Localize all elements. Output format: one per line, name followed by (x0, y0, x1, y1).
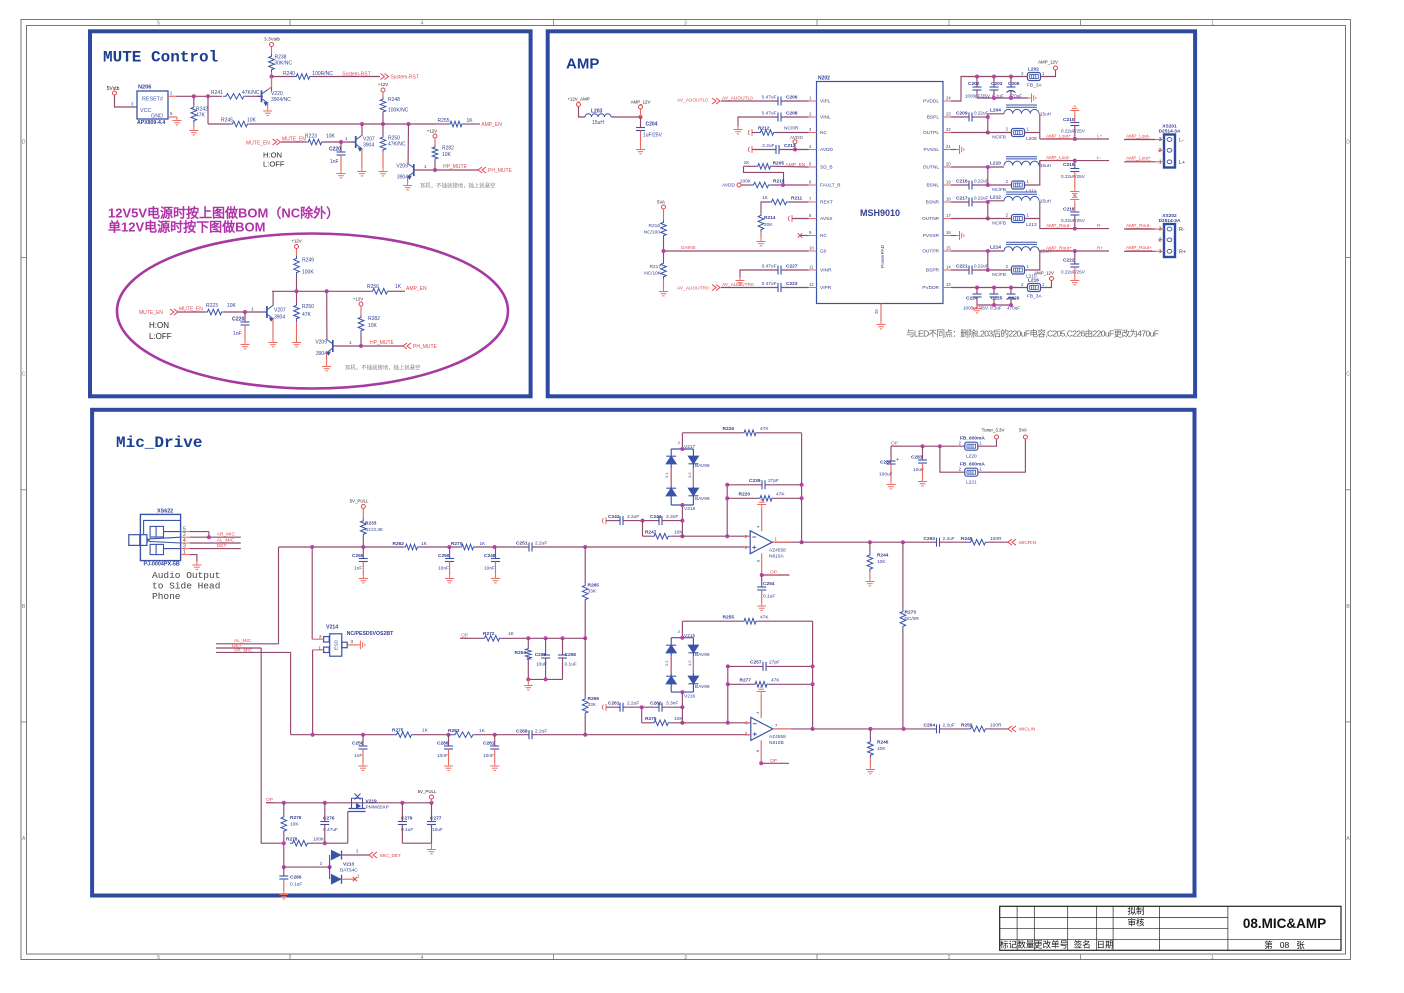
title block outer frame (1000, 906, 1341, 950)
off-page connector MICLIN (1008, 726, 1016, 732)
svg-text:0.22uF/25V: 0.22uF/25V (1061, 270, 1086, 275)
svg-text:V219: V219 (366, 798, 378, 804)
svg-text:10K: 10K (368, 323, 378, 329)
svg-text:Tuner_3.3V: Tuner_3.3V (982, 428, 1005, 433)
svg-text:NC/FB: NC/FB (992, 135, 1006, 140)
svg-text:D2514-3A: D2514-3A (1159, 129, 1181, 135)
capacitor C221 0.22uF (951, 269, 969, 271)
svg-text:AVDD: AVDD (820, 147, 834, 153)
wire opamp output lower (773, 728, 937, 730)
capacitor C203 0.1uF (993, 77, 995, 88)
svg-text:System-RST: System-RST (342, 71, 370, 77)
svg-text:3: 3 (351, 639, 354, 644)
svg-text:V216: V216 (684, 694, 696, 700)
svg-text:拟制: 拟制 (1127, 906, 1144, 916)
svg-text:47K: 47K (771, 678, 780, 684)
wire V209 base to HP_MUTE ellipse (333, 345, 403, 347)
wire to C206 (721, 100, 778, 102)
svg-text:0.22uF/25V: 0.22uF/25V (1061, 129, 1086, 134)
ground below C248 (495, 562, 497, 576)
wire L216 to AMP_12V (1041, 280, 1052, 288)
IC N202 MSH9010 body (817, 82, 944, 304)
svg-text:AV_AUOUTR0: AV_AUOUTR0 (677, 286, 709, 292)
inductor L210 15uH (951, 166, 1004, 168)
svg-text:C226: C226 (1008, 296, 1020, 302)
wire V219 gate down (347, 812, 349, 844)
svg-text:2.2uF: 2.2uF (943, 723, 955, 729)
svg-text:C280: C280 (290, 875, 302, 881)
resistor R223 10K (306, 139, 324, 145)
svg-text:VIPR: VIPR (820, 285, 832, 291)
svg-text:3.3Vstb: 3.3Vstb (264, 37, 280, 42)
resistor R282 10K (432, 145, 438, 161)
svg-text:AMP_EN: AMP_EN (406, 286, 427, 292)
power +12V right ellipse (359, 302, 363, 306)
Mic_Drive box border (92, 410, 1194, 896)
svg-text:C255: C255 (352, 553, 364, 559)
svg-text:APX809-4.4: APX809-4.4 (137, 120, 165, 126)
stub XS201 pin2 (1158, 149, 1164, 151)
svg-text:L221: L221 (966, 480, 977, 486)
svg-text:0.22uF: 0.22uF (974, 111, 988, 116)
wire L220 to Tuner_3.3V (978, 439, 997, 446)
svg-text:DET: DET (217, 543, 227, 549)
svg-text:PH_MUTE: PH_MUTE (488, 168, 513, 174)
capacitor C284 100uF (887, 461, 896, 464)
svg-text:10K: 10K (877, 559, 886, 565)
svg-text:3.3nF: 3.3nF (666, 514, 678, 520)
wire bottom caps rail to ground (977, 304, 1011, 306)
no-connect C242 left (602, 517, 606, 524)
svg-text:AMP_Lout+: AMP_Lout+ (1126, 156, 1151, 162)
svg-text:PH_MUTE: PH_MUTE (413, 344, 438, 350)
wire 5VA to R216 (663, 209, 665, 220)
svg-text:R255: R255 (723, 614, 735, 620)
svg-text:3: 3 (684, 21, 687, 27)
svg-text:XS201: XS201 (1162, 124, 1177, 130)
wire V216 to input node lower (681, 692, 683, 723)
svg-text:V207: V207 (274, 307, 286, 313)
IC N206 APX809-4.4 (137, 91, 168, 119)
svg-text:BAV99: BAV99 (695, 652, 710, 658)
svg-text:1: 1 (251, 307, 254, 313)
capacitor C216 0.22uF (951, 184, 969, 186)
svg-text:1K: 1K (421, 541, 428, 547)
svg-text:HP_MUTE: HP_MUTE (370, 340, 395, 346)
svg-text:PVDDL: PVDDL (923, 99, 939, 105)
resistor R226 47K feedback (682, 432, 742, 434)
capacitor C264 2.2uF (937, 724, 940, 733)
svg-text:27pF: 27pF (769, 660, 780, 666)
svg-text:R246: R246 (877, 740, 889, 746)
svg-text:NC: NC (820, 233, 827, 239)
wire C261 to C262 (623, 706, 659, 708)
svg-text:NC/0R: NC/0R (784, 126, 799, 132)
svg-text:R283: R283 (448, 728, 460, 734)
svg-text:15uH: 15uH (1040, 112, 1051, 117)
wire R276 down to MIC_DET node (283, 843, 285, 867)
feedback right vertical upper (801, 433, 803, 542)
svg-text:PVSSR: PVSSR (923, 233, 940, 239)
svg-text:L220: L220 (966, 454, 977, 460)
svg-text:NC/FB: NC/FB (992, 221, 1006, 226)
op-amp N810B AZ4558 (751, 717, 773, 740)
ground left of C227 (740, 270, 744, 277)
svg-text:AMP: AMP (566, 56, 599, 73)
svg-text:R247: R247 (645, 529, 657, 535)
svg-text:R253: R253 (515, 650, 527, 656)
svg-text:C242: C242 (608, 514, 620, 520)
svg-text:OP: OP (461, 633, 468, 639)
ferrite bead L220 FB_600mA (965, 442, 978, 450)
resistor R277 47K (728, 683, 753, 685)
wire L221 to 5VA (978, 439, 1026, 472)
svg-text:D: D (22, 140, 26, 146)
power +12V_AMP (577, 103, 581, 107)
svg-text:R259: R259 (961, 723, 973, 729)
wire pin5 stub (190, 531, 209, 533)
wire AR_MIC bus (216, 651, 291, 653)
capacitor C242 2.2uF (606, 520, 620, 522)
off-page chevron AV_AUOUTL0 (712, 98, 720, 104)
svg-text:R216: R216 (649, 223, 661, 229)
wire 3.3Vstb to R238 (271, 47, 273, 55)
svg-text:AL_MIC: AL_MIC (217, 537, 235, 543)
svg-text:5V_PULL: 5V_PULL (350, 499, 369, 504)
ground V214 pin3 (347, 644, 357, 646)
svg-text:R249: R249 (961, 536, 973, 542)
svg-text:1: 1 (345, 136, 348, 141)
svg-text:PowerPAD: PowerPAD (880, 244, 886, 268)
svg-text:R211: R211 (791, 196, 803, 202)
svg-text:ESD: ESD (334, 640, 340, 650)
svg-text:AVSS: AVSS (820, 216, 832, 222)
svg-text:10K: 10K (290, 822, 299, 828)
svg-text:0.22uF/25V: 0.22uF/25V (1061, 218, 1086, 223)
capacitor C227 0.47uF (744, 269, 778, 271)
svg-text:R217: R217 (650, 264, 662, 270)
svg-text:2.2uF: 2.2uF (943, 536, 955, 542)
svg-text:VINR: VINR (820, 268, 832, 274)
svg-text:R272: R272 (483, 631, 495, 637)
ground below C254 (761, 590, 763, 603)
capacitor C223 0.47uF (721, 287, 778, 289)
resistor R278 100K (290, 840, 310, 846)
wire V214 pin2 to upper channel (312, 638, 323, 640)
svg-text:0.47uF: 0.47uF (762, 95, 777, 101)
capacitor C210 0.22uF/25V (1074, 126, 1076, 140)
vertical node Lout+ (1039, 114, 1041, 139)
resistor R238 30K/NC (269, 54, 275, 72)
svg-text:C227: C227 (786, 264, 798, 270)
svg-text:NC/PESD5VOS2BT: NC/PESD5VOS2BT (347, 631, 395, 637)
svg-text:10K: 10K (227, 303, 237, 309)
wire C243 to V218 node (662, 520, 682, 522)
svg-text:15uH: 15uH (592, 120, 604, 126)
svg-text:C264: C264 (924, 723, 936, 729)
svg-text:47K/NC: 47K/NC (242, 90, 260, 96)
svg-text:2.2uF: 2.2uF (627, 514, 639, 520)
svg-text:1nF: 1nF (354, 753, 362, 759)
svg-text:20K: 20K (764, 222, 773, 228)
svg-text:11: 11 (809, 265, 814, 270)
svg-text:L214: L214 (990, 245, 1001, 251)
svg-text:to Side Head: to Side Head (152, 581, 220, 592)
capacitor C283 10uF (922, 446, 924, 460)
resistor R220 47K (727, 497, 758, 499)
zone letters right (1346, 140, 1350, 842)
wire R275b to opamp minus lower (671, 722, 751, 724)
svg-text:2: 2 (948, 21, 951, 27)
svg-text:3.3nF: 3.3nF (666, 701, 678, 707)
ground below C277 (431, 843, 433, 846)
ground below R244 (869, 572, 871, 579)
svg-text:3904: 3904 (316, 351, 327, 357)
svg-text:R278: R278 (286, 836, 298, 842)
svg-text:C277: C277 (430, 816, 442, 822)
svg-text:+12V: +12V (378, 82, 388, 87)
capacitor C220 1nF (340, 142, 342, 152)
svg-text:0.1uF: 0.1uF (990, 306, 1002, 311)
wire AL_MIC from pin4 (190, 542, 241, 544)
capacitor C202 1000pF/35V (976, 77, 978, 88)
svg-text:R223: R223 (206, 303, 218, 309)
svg-text:耳机，不插就接地，插上就悬空: 耳机，不插就接地，插上就悬空 (345, 364, 420, 372)
op-amp pin 8 OP upper (761, 553, 763, 575)
ground below C281 (494, 749, 496, 763)
ground below C215 (1074, 172, 1076, 189)
svg-text:C210: C210 (1063, 117, 1075, 123)
off-page connector MICRIN (1008, 539, 1016, 545)
wire R233 to line (362, 537, 364, 548)
no-connect left of C213 (748, 146, 752, 153)
svg-text:C243: C243 (650, 514, 662, 520)
svg-text:标记: 标记 (1000, 940, 1018, 950)
svg-text:第 08 张: 第 08 张 (1264, 940, 1305, 950)
svg-text:FAULT_B: FAULT_B (820, 183, 840, 189)
wire C251 to opamp plus (532, 546, 750, 548)
svg-text:SD_B: SD_B (820, 165, 833, 171)
svg-text:System-RST: System-RST (391, 75, 419, 81)
zone ticks bottom (290, 954, 1081, 960)
svg-text:BAV99: BAV99 (695, 496, 710, 502)
wire OP bottom rail (266, 802, 432, 804)
svg-text:1:2: 1:2 (687, 472, 692, 478)
svg-text:5VA: 5VA (1019, 428, 1027, 433)
wire opamp output upper (772, 541, 936, 543)
svg-text:AZ4558: AZ4558 (769, 734, 786, 740)
svg-text:审核: 审核 (1127, 917, 1145, 927)
svg-text:数量: 数量 (1017, 940, 1035, 950)
wire G0 GAIN0 (664, 250, 809, 252)
svg-text:R273: R273 (905, 610, 917, 616)
svg-text:R214: R214 (764, 215, 776, 221)
ground left of C208 (738, 117, 744, 126)
wire +12V to R282 ellipse (360, 306, 362, 315)
wire OP to R272 (460, 637, 482, 639)
svg-text:C276: C276 (323, 816, 335, 822)
stub XS202 pin2 (1158, 239, 1164, 241)
svg-text:1K: 1K (422, 727, 429, 733)
svg-text:15: 15 (946, 246, 951, 251)
off-page chevron AV_AUOUTR0 (712, 285, 720, 291)
svg-text:C279: C279 (401, 816, 413, 822)
wire +12V to R282 (434, 138, 436, 145)
vertical join L204 C209 OUTPL (987, 114, 989, 133)
svg-text:R282: R282 (368, 316, 380, 322)
power Tuner_3.3V (995, 435, 999, 439)
capacitor C206 0.47uF (778, 97, 781, 106)
vertical join L210 BSNL (987, 166, 989, 186)
svg-text:AMP_12V: AMP_12V (631, 100, 651, 105)
resistor R253 1K (527, 638, 529, 647)
wire PVDDR rail (951, 287, 1028, 289)
ground below R214 (760, 232, 762, 238)
zone numbers top (157, 21, 1214, 27)
svg-text:1K: 1K (526, 656, 533, 662)
ground below C286 (448, 749, 450, 763)
svg-text:FB_3A: FB_3A (1027, 83, 1042, 89)
svg-text:L+: L+ (1097, 133, 1103, 139)
svg-text:24: 24 (946, 96, 951, 101)
svg-text:R220: R220 (739, 492, 751, 498)
capacitor C217 0.22uF (951, 201, 969, 203)
svg-text:OUTNL: OUTNL (923, 165, 940, 171)
svg-text:V218: V218 (684, 506, 696, 512)
capacitor C226 470uF (1010, 288, 1012, 295)
ground below C256 (362, 749, 364, 763)
svg-text:C281: C281 (483, 741, 495, 747)
svg-text:C254: C254 (763, 581, 775, 587)
wire L221 branch (940, 446, 965, 472)
ground below R250 ellipse (296, 321, 298, 339)
svg-text:C292: C292 (924, 536, 936, 542)
off-page connector MIC_DET (369, 852, 377, 858)
svg-text:1: 1 (1159, 159, 1162, 165)
svg-text:47K: 47K (196, 113, 206, 119)
svg-text:20: 20 (946, 162, 951, 167)
svg-text:R255: R255 (438, 118, 450, 124)
svg-text:AR_MIC: AR_MIC (217, 531, 236, 537)
svg-text:R277: R277 (740, 678, 752, 684)
resistor R272 1K (482, 636, 502, 642)
svg-text:C261: C261 (608, 701, 620, 707)
svg-text:NC/10K: NC/10K (644, 271, 662, 277)
svg-text:L212: L212 (990, 195, 1001, 201)
wire AMP_Lout- row (1039, 161, 1109, 166)
svg-text:C268: C268 (516, 728, 528, 734)
svg-text:L204: L204 (990, 108, 1001, 114)
svg-text:PVDDR: PVDDR (922, 285, 939, 291)
svg-text:L210: L210 (990, 160, 1001, 166)
resistor R269 33K (584, 638, 586, 696)
wire OUTPL to L208 (951, 132, 1012, 134)
svg-text:0.22uF: 0.22uF (974, 264, 988, 269)
svg-text:C203: C203 (991, 81, 1003, 87)
wire down to R245 row (207, 96, 209, 124)
svg-text:R269: R269 (588, 696, 600, 702)
svg-text:C: C (1346, 372, 1350, 378)
wire AL_MIC bus (216, 643, 279, 645)
svg-text:RESET#: RESET# (142, 97, 163, 103)
svg-text:G0: G0 (820, 249, 827, 255)
IC N202 pin names and numbers (809, 96, 951, 292)
svg-text:1: 1 (1211, 955, 1214, 961)
no-connect left of R212 (748, 129, 752, 136)
ground at N206 GND (173, 117, 182, 125)
resistor R256 1K (370, 289, 390, 295)
svg-text:2.2uF: 2.2uF (535, 728, 547, 734)
capacitor C262 3.3nF (659, 703, 662, 712)
svg-text:L-: L- (1097, 155, 1102, 161)
feedback right vertical lower (812, 621, 814, 729)
capacitor C258 0.1uF (562, 638, 564, 655)
svg-text:C239: C239 (749, 478, 761, 484)
resistor R214 20K (758, 213, 764, 232)
purple ellipse (117, 234, 508, 389)
resistor R275b 10K (642, 722, 652, 724)
resistor R249b 100R (940, 541, 969, 543)
capacitor C279 0.1uF (401, 803, 403, 822)
power AMP_12V bottom right (1050, 277, 1054, 281)
svg-text:R270: R270 (451, 541, 463, 547)
capacitor C243 3.3nF (659, 516, 662, 525)
svg-text:C250: C250 (438, 553, 450, 559)
resistor R210 100K (741, 184, 751, 186)
svg-text:0.47uF: 0.47uF (762, 111, 777, 117)
svg-text:R212: R212 (758, 126, 770, 132)
resistor R255 1K (437, 123, 448, 125)
svg-text:AMP_Rout-: AMP_Rout- (1126, 223, 1151, 229)
wire upper channel main (279, 546, 404, 548)
svg-text:3: 3 (1159, 137, 1162, 143)
svg-text:27pF: 27pF (768, 478, 779, 484)
svg-text:L216: L216 (1028, 278, 1039, 284)
svg-text:2:1: 2:1 (664, 660, 669, 666)
svg-text:L:OFF: L:OFF (149, 332, 172, 341)
wire R249 to row (296, 275, 298, 291)
ground below R242 (193, 123, 195, 127)
svg-text:C223: C223 (786, 281, 798, 287)
svg-text:10K: 10K (442, 152, 452, 158)
no-connect AVSS (788, 215, 792, 222)
wire R282 to node (434, 161, 436, 170)
resistor R255 47K feedback (682, 620, 742, 622)
svg-text:3904: 3904 (274, 315, 285, 321)
svg-text:2: 2 (1159, 148, 1162, 154)
resistor R233 NC/3.3K (361, 519, 367, 537)
svg-text:47K: 47K (302, 312, 312, 318)
capacitor C251 2.2uF (529, 543, 532, 552)
svg-text:L:OFF: L:OFF (263, 160, 285, 169)
power +12V top (381, 88, 385, 92)
capacitor C256 1nF (362, 735, 364, 746)
connector XS622 jack (129, 514, 181, 560)
transistor V219 PMW65XP mosfet (349, 794, 366, 812)
svg-text:+12V_AMP: +12V_AMP (567, 97, 589, 102)
resistor R249 100K (294, 256, 300, 275)
svg-text:AMP_EN: AMP_EN (481, 122, 502, 128)
svg-text:2.2uF: 2.2uF (627, 701, 639, 707)
svg-text:1: 1 (1159, 249, 1162, 255)
svg-text:C216: C216 (956, 179, 968, 185)
svg-text:N810B: N810B (769, 740, 784, 746)
svg-text:1K: 1K (508, 631, 515, 637)
transistor V207 ellipse (262, 305, 273, 321)
op-amp power pin 4 lower (760, 695, 762, 718)
svg-text:0.1uF: 0.1uF (565, 661, 577, 667)
svg-text:R233: R233 (365, 521, 377, 527)
